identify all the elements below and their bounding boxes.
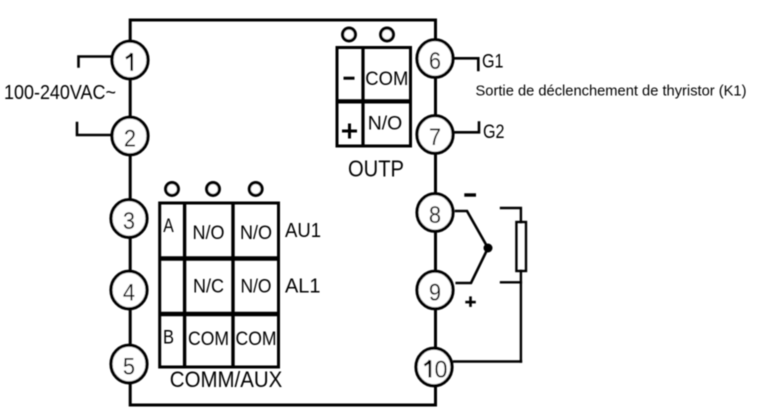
svg-text:AL1: AL1: [285, 276, 321, 298]
svg-text:6: 6: [429, 48, 441, 75]
svg-text:B: B: [163, 327, 174, 349]
svg-text:0: 0: [435, 357, 448, 384]
svg-text:A: A: [163, 215, 174, 237]
svg-text:4: 4: [123, 280, 135, 307]
svg-text:G1: G1: [482, 51, 504, 73]
svg-text:OUTP: OUTP: [348, 155, 404, 181]
svg-text:Sortie de déclenchement de thy: Sortie de déclenchement de thyristor (K1…: [476, 83, 747, 100]
svg-text:100-240VAC~: 100-240VAC~: [4, 81, 116, 104]
svg-text:N/C: N/C: [193, 276, 224, 298]
svg-text:N/O: N/O: [368, 112, 403, 134]
svg-text:COM: COM: [188, 328, 229, 350]
svg-text:8: 8: [429, 202, 441, 229]
svg-text:COM: COM: [236, 328, 277, 350]
svg-text:COM: COM: [365, 68, 408, 90]
svg-text:9: 9: [429, 280, 441, 307]
svg-text:N/O: N/O: [193, 222, 225, 244]
svg-text:5: 5: [123, 354, 135, 381]
svg-text:3: 3: [123, 208, 135, 235]
svg-text:COMM/AUX: COMM/AUX: [170, 367, 283, 392]
svg-text:2: 2: [124, 126, 136, 153]
svg-text:N/O: N/O: [241, 276, 272, 298]
svg-text:7: 7: [429, 124, 441, 151]
svg-text:N/O: N/O: [240, 222, 272, 244]
svg-text:G2: G2: [483, 121, 505, 143]
svg-text:AU1: AU1: [285, 220, 321, 242]
